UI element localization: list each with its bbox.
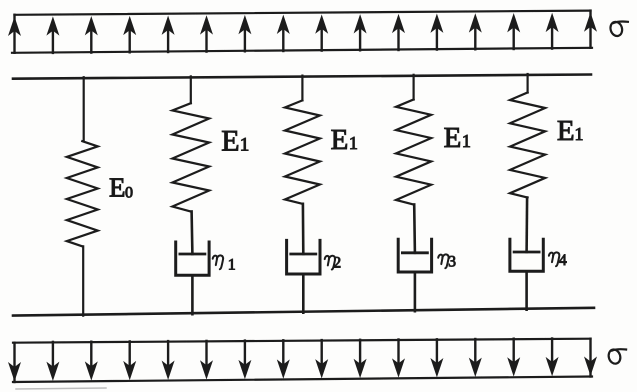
top stress arrow 3	[86, 18, 97, 53]
bottom stress arrow 7	[239, 341, 250, 378]
top stress arrow 11	[393, 15, 404, 50]
svg-text:0: 0	[125, 185, 133, 202]
scan artifact line	[16, 388, 106, 389]
svg-text:E: E	[444, 122, 462, 154]
bottom stress arrow 3	[86, 342, 97, 379]
bottom stress band bottom line	[13, 377, 592, 383]
top stress arrow 6	[201, 17, 212, 52]
svg-text:3: 3	[448, 254, 456, 271]
svg-text:1: 1	[228, 256, 236, 273]
wire: branch 4 lower rod	[414, 272, 417, 311]
label E1 (branch 5)	[557, 115, 584, 147]
bottom stress arrow 9	[316, 340, 327, 377]
bottom stress band top line	[13, 339, 591, 343]
dashpot eta3	[398, 239, 431, 272]
top stress arrow 5	[163, 17, 174, 52]
top stress arrow 10	[355, 16, 366, 51]
spring E0	[67, 141, 98, 246]
top stress arrow 13	[470, 15, 481, 50]
svg-text:1: 1	[240, 135, 250, 156]
wire: branch 3 upper rod	[301, 76, 303, 101]
label sigma (bottom)	[607, 348, 626, 365]
svg-text:E: E	[221, 125, 239, 158]
top stress arrow 15	[547, 14, 558, 48]
bottom stress arrow 4	[124, 341, 135, 378]
bottom stress arrow 14	[508, 339, 519, 375]
label sigma (top)	[609, 20, 628, 37]
svg-text:E: E	[331, 124, 349, 156]
top stress arrow 16	[585, 11, 596, 48]
bottom stress arrow 15	[547, 339, 558, 375]
svg-text:4: 4	[559, 252, 567, 269]
bottom stress arrow 8	[278, 340, 289, 377]
svg-text:1: 1	[462, 131, 471, 151]
wire: branch 5 upper rod	[526, 74, 528, 93]
top stress arrow 2	[47, 18, 58, 53]
wire: branch 4 upper rod	[413, 75, 415, 100]
dashpot eta2	[287, 240, 320, 274]
bottom stress arrow 16	[585, 339, 596, 377]
wire: branch 3 lower rod	[302, 274, 305, 313]
top stress arrow 9	[316, 16, 327, 51]
label eta4	[549, 252, 567, 269]
svg-text:E: E	[557, 115, 575, 147]
top stress arrow 4	[124, 17, 135, 52]
label E0	[109, 173, 133, 203]
label E1 (branch 4)	[444, 122, 471, 154]
top plate	[13, 75, 591, 79]
top stress arrow 8	[278, 16, 289, 51]
top stress arrow 14	[508, 15, 519, 49]
bottom stress arrow 5	[163, 341, 174, 378]
svg-text:2: 2	[333, 255, 341, 272]
label eta3	[438, 254, 456, 271]
label eta2	[325, 255, 341, 272]
svg-text:E: E	[109, 173, 126, 203]
label E1 (branch 2)	[221, 125, 249, 158]
wire: branch 2 lower rod	[191, 275, 194, 314]
bottom stress arrow 1	[9, 343, 20, 382]
spring E1 (branch 3)	[285, 100, 320, 203]
wire: branch 1 upper rod	[83, 77, 85, 141]
spring E1 (branch 4)	[396, 100, 431, 205]
top stress arrow 1	[9, 15, 20, 53]
label eta1	[213, 255, 236, 273]
dashpot eta4	[510, 239, 543, 271]
top stress arrow 7	[239, 17, 250, 52]
bottom stress arrow 13	[470, 339, 481, 375]
wire: branch 5 lower rod	[525, 271, 528, 309]
svg-text:1: 1	[575, 124, 584, 144]
bottom stress arrow 6	[201, 341, 212, 378]
label E1 (branch 3)	[331, 124, 358, 156]
bottom stress arrow 2	[47, 342, 58, 380]
top stress arrow 12	[431, 15, 442, 50]
bottom stress arrow 11	[393, 340, 404, 377]
spring E1 (branch 5)	[510, 93, 545, 198]
top stress band top line	[15, 11, 591, 15]
wire: branch 2 spring-to-dashpot rod	[190, 212, 193, 255]
wire: branch 3 spring-to-dashpot rod	[302, 204, 305, 254]
spring E1 (branch 2)	[172, 103, 209, 211]
bottom stress arrow 12	[431, 339, 442, 376]
bottom plate	[13, 308, 594, 316]
wire: branch 2 upper rod	[190, 76, 192, 103]
dashpot eta1	[176, 242, 209, 275]
top stress band bottom line	[12, 48, 592, 53]
wire: branch 5 spring-to-dashpot rod	[525, 198, 528, 253]
wire: branch 1 lower rod	[82, 246, 84, 315]
bottom stress arrow 10	[355, 340, 366, 377]
svg-text:1: 1	[349, 133, 358, 153]
wire: branch 4 spring-to-dashpot rod	[413, 205, 416, 253]
